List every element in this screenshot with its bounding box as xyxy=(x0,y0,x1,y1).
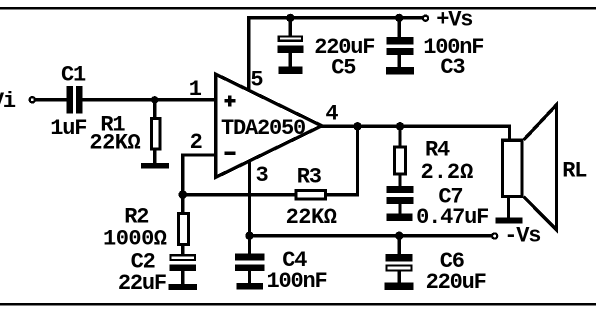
-Vs terminal circle xyxy=(492,233,497,238)
svg-text:C3: C3 xyxy=(440,55,465,80)
wire output pin 4 to speaker xyxy=(321,125,511,128)
ground bar below C4 xyxy=(237,283,263,290)
ground bar below C6 xyxy=(385,282,414,290)
wire input to C1 xyxy=(35,98,66,101)
svg-text:C5: C5 xyxy=(331,56,356,81)
capacitor C3 xyxy=(386,18,413,67)
resistor R1 xyxy=(151,100,160,164)
svg-text:TDA2050: TDA2050 xyxy=(221,116,305,141)
wire feedback vertical from output xyxy=(356,126,359,196)
svg-text:100nF: 100nF xyxy=(267,269,327,294)
capacitor C2 polarized xyxy=(170,255,197,284)
border top line xyxy=(0,7,596,9)
svg-text:-Vs: -Vs xyxy=(504,223,540,248)
wire feedback horizontal left of R3 xyxy=(183,193,295,196)
node C5 rail junction xyxy=(286,14,294,22)
capacitor C7 xyxy=(386,186,413,214)
node output junction 1 xyxy=(353,122,361,130)
svg-text:R4: R4 xyxy=(425,138,450,163)
resistor R3 xyxy=(296,191,325,199)
wire pin 5 to +Vs rail xyxy=(247,16,250,90)
capacitor C1 xyxy=(66,86,82,113)
node output junction 2 xyxy=(396,122,404,130)
svg-text:RL: RL xyxy=(562,159,587,184)
svg-text:3: 3 xyxy=(256,163,269,188)
node feedback junction xyxy=(179,190,188,199)
svg-text:4: 4 xyxy=(325,102,338,127)
capacitor C6 polarized xyxy=(385,236,412,283)
ground bar below C5 xyxy=(278,67,302,74)
capacitor C4 xyxy=(235,236,264,283)
wire speaker to ground bar xyxy=(507,196,510,217)
svg-text:1000Ω: 1000Ω xyxy=(103,226,167,251)
wire +Vs rail xyxy=(247,16,422,19)
svg-text:2: 2 xyxy=(190,130,202,155)
plus symbol noninverting input xyxy=(224,95,235,106)
ground bar below R1 xyxy=(141,163,169,169)
wire corner down to speaker xyxy=(508,125,511,140)
speaker RL horn xyxy=(524,105,557,230)
svg-text:22uF: 22uF xyxy=(118,271,166,296)
wire pin 2 to feedback node xyxy=(181,153,217,194)
minus symbol inverting input xyxy=(224,151,235,155)
node C3 rail junction xyxy=(395,14,403,22)
ground bar below speaker xyxy=(495,217,522,223)
svg-text:1uF: 1uF xyxy=(50,116,86,141)
svg-text:5: 5 xyxy=(250,67,263,92)
resistor R2 xyxy=(179,195,189,256)
ground bar below C7 xyxy=(387,214,413,221)
svg-text:C1: C1 xyxy=(61,63,86,88)
node C6 rail junction xyxy=(395,232,403,240)
wire -Vs rail xyxy=(248,234,492,237)
speaker RL box xyxy=(502,140,522,196)
svg-text:Vi: Vi xyxy=(0,89,16,114)
ground bar below C3 xyxy=(386,67,414,74)
svg-text:+Vs: +Vs xyxy=(436,8,472,33)
svg-text:2.2Ω: 2.2Ω xyxy=(421,160,474,185)
svg-text:22KΩ: 22KΩ xyxy=(89,131,140,156)
capacitor C5 polarized xyxy=(278,18,304,67)
wire feedback horizontal right of R3 xyxy=(327,193,359,196)
op-amp U1 triangle TDA2050 xyxy=(216,74,322,177)
border bottom line xyxy=(0,303,596,305)
wire C1 to pin 1 xyxy=(83,98,216,101)
resistor R4 xyxy=(395,126,406,186)
ground bar below C2 xyxy=(169,284,198,290)
svg-text:220uF: 220uF xyxy=(426,270,486,295)
+Vs terminal circle xyxy=(423,16,428,21)
svg-text:22KΩ: 22KΩ xyxy=(286,205,337,230)
input terminal circle xyxy=(30,97,35,102)
svg-text:0.47uF: 0.47uF xyxy=(416,205,488,230)
wire pin 3 to -Vs rail xyxy=(248,162,251,237)
svg-text:1: 1 xyxy=(189,77,202,102)
node junction input xyxy=(151,96,158,103)
svg-text:R3: R3 xyxy=(297,164,322,189)
node pin3 rail junction xyxy=(245,232,253,240)
